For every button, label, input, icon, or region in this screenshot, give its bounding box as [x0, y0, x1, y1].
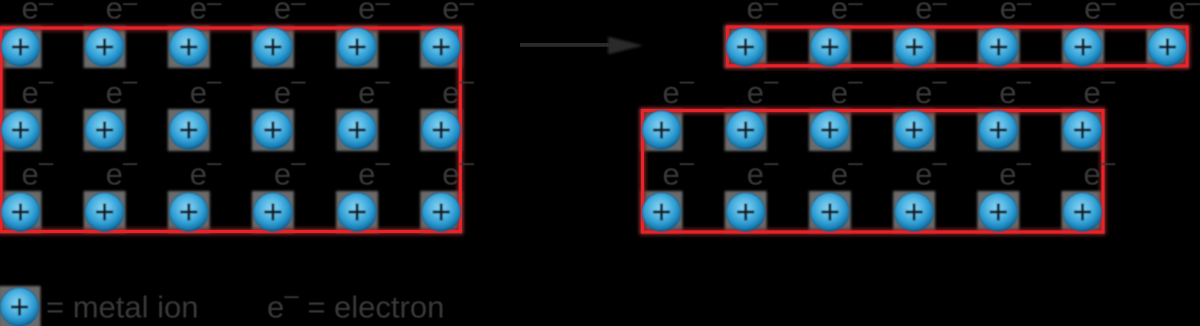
artifact halo behind ion RT-c2 [809, 26, 851, 68]
artifact halo behind ion L-r1c6 [420, 26, 462, 68]
svg-text:e–: e– [106, 0, 138, 26]
metal ion L-r3c6 [422, 193, 460, 231]
metal ion RT-c4 [980, 28, 1018, 66]
artifact halo behind ion L-r3c3 [168, 191, 210, 233]
artifact halo behind ion RB-r3c2 [725, 191, 767, 233]
metal ion L-r3c1 [1, 193, 39, 231]
metal ion L-r3c2 [85, 193, 123, 231]
artifact halo behind ion RT-c4 [978, 26, 1020, 68]
svg-text:e–: e– [999, 147, 1031, 192]
svg-text:e–: e– [1084, 65, 1116, 110]
svg-text:e–: e– [190, 65, 222, 110]
svg-text:e–: e– [274, 0, 306, 26]
svg-text:e–: e– [999, 65, 1031, 110]
svg-text:e–: e– [274, 147, 306, 192]
artifact halo behind ion RB-r2c5 [977, 109, 1019, 151]
metal ion legend [0, 288, 38, 326]
artifact halo behind ion L-r2c6 [420, 109, 462, 151]
metal ion L-r3c4 [254, 193, 292, 231]
svg-text:e–: e– [747, 65, 779, 110]
arrow shaft [520, 43, 610, 47]
svg-text:e–: e– [831, 147, 863, 192]
metal ion RB-r3c2 [727, 193, 765, 231]
svg-text:e–: e– [915, 65, 947, 110]
metal ion RB-r2c3 [811, 111, 849, 149]
metal ion RB-r3c4 [895, 193, 933, 231]
metal ion RB-r3c1 [642, 193, 680, 231]
metal ion L-r3c5 [338, 193, 376, 231]
red outline right bottom block [643, 111, 1104, 233]
metal ion RB-r2c6 [1063, 111, 1101, 149]
svg-text:e–: e– [358, 147, 390, 192]
metal ion RT-c1 [726, 28, 764, 66]
metal ion L-r2c2 [85, 111, 123, 149]
artifact halo behind ion L-r2c3 [168, 109, 210, 151]
metal ion RT-c6 [1148, 28, 1186, 66]
red outline smear right bottom block [643, 111, 1104, 233]
red outline right top layer block [728, 27, 1188, 66]
svg-text:e–: e– [22, 0, 54, 26]
svg-text:e–: e– [1084, 0, 1116, 26]
svg-text:e–: e– [663, 147, 695, 192]
svg-text:= metal ion: = metal ion [46, 290, 199, 325]
svg-text:e–: e– [358, 65, 390, 110]
artifact halo behind ion RB-r3c6 [1062, 191, 1104, 233]
artifact halo behind ion RB-r2c6 [1062, 109, 1104, 151]
metal ion L-r2c1 [1, 111, 39, 149]
metal ion L-r2c3 [170, 111, 208, 149]
artifact halo behind ion L-r3c6 [420, 191, 462, 233]
svg-text:e–: e– [442, 0, 474, 26]
red outline smear right top layer block [728, 27, 1188, 66]
metal ion RB-r2c2 [727, 111, 765, 149]
svg-text:e–: e– [22, 65, 54, 110]
artifact halo behind ion L-r1c1 [0, 26, 42, 68]
metal ion L-r2c5 [338, 111, 376, 149]
metal ion RB-r3c5 [979, 193, 1017, 231]
metal ion L-r2c4 [254, 111, 292, 149]
artifact halo behind ion L-r1c4 [252, 26, 294, 68]
svg-text:e–: e– [831, 65, 863, 110]
metal ion L-r1c1 [1, 28, 39, 66]
metal ion RB-r2c4 [895, 111, 933, 149]
svg-text:e–: e– [915, 0, 947, 26]
metal ion RT-c2 [811, 28, 849, 66]
metal ion RB-r3c3 [811, 193, 849, 231]
artifact halo behind ion L-r2c4 [252, 109, 294, 151]
artifact halo behind ion RT-c3 [893, 26, 935, 68]
artifact halo behind ion RT-c6 [1147, 26, 1189, 68]
svg-text:e–: e– [1084, 147, 1116, 192]
svg-text:e–: e– [106, 147, 138, 192]
svg-text:e–: e– [747, 147, 779, 192]
artifact halo behind ion L-r3c5 [336, 191, 378, 233]
metal ion L-r1c5 [338, 28, 376, 66]
metal ion L-r1c2 [85, 28, 123, 66]
svg-text:e–: e– [358, 0, 390, 26]
artifact halo behind ion L-r3c2 [84, 191, 126, 233]
artifact halo behind ion RB-r3c3 [809, 191, 851, 233]
metal ion RB-r2c1 [642, 111, 680, 149]
arrow head [608, 37, 643, 55]
artifact halo behind ion L-r3c4 [252, 191, 294, 233]
svg-text:e–: e– [190, 0, 222, 26]
artifact halo behind ion RB-r2c3 [809, 109, 851, 151]
svg-text:e–: e– [274, 65, 306, 110]
artifact halo behind ion L-r2c5 [336, 109, 378, 151]
metal ion RT-c3 [895, 28, 933, 66]
metal ion RT-c5 [1064, 28, 1102, 66]
artifact halo behind legend ion [0, 286, 41, 326]
artifact halo behind ion RT-c5 [1062, 26, 1104, 68]
artifact halo behind ion RT-c1 [725, 26, 767, 68]
metal ion L-r1c6 [422, 28, 460, 66]
svg-text:e–: e– [190, 147, 222, 192]
metal ion L-r3c3 [170, 193, 208, 231]
svg-text:e–: e– [915, 147, 947, 192]
svg-text:e–: e– [747, 0, 779, 26]
artifact halo behind ion L-r2c1 [0, 109, 42, 151]
svg-text:e– = electron: e– = electron [267, 280, 444, 325]
artifact halo behind ion RB-r3c1 [641, 191, 683, 233]
red outline smear left block [1, 28, 460, 232]
metal ion L-r2c6 [422, 111, 460, 149]
artifact halo behind ion RB-r3c4 [893, 191, 935, 233]
svg-text:e–: e– [22, 147, 54, 192]
svg-text:e–: e– [1000, 0, 1032, 26]
svg-text:e–: e– [831, 0, 863, 26]
artifact halo behind ion L-r1c2 [84, 26, 126, 68]
artifact halo behind ion RB-r3c5 [977, 191, 1019, 233]
artifact halo behind ion L-r2c2 [84, 109, 126, 151]
metal ion RB-r3c6 [1063, 193, 1101, 231]
svg-text:e–: e– [663, 65, 695, 110]
svg-text:e–: e– [1169, 0, 1200, 26]
artifact halo behind ion L-r3c1 [0, 191, 42, 233]
artifact halo behind ion RB-r2c4 [893, 109, 935, 151]
metal ion RB-r2c5 [979, 111, 1017, 149]
metal ion L-r1c4 [254, 28, 292, 66]
artifact halo behind ion RB-r2c1 [641, 109, 683, 151]
artifact halo behind ion RB-r2c2 [725, 109, 767, 151]
artifact halo behind ion L-r1c3 [168, 26, 210, 68]
metal ion L-r1c3 [170, 28, 208, 66]
artifact halo behind ion L-r1c5 [336, 26, 378, 68]
svg-text:e–: e– [106, 65, 138, 110]
red outline left block [1, 28, 460, 232]
